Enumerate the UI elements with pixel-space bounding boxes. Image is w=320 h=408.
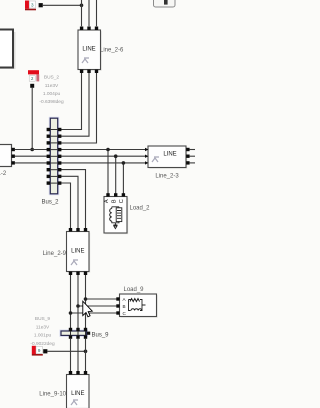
- svg-text:BUS_9: BUS_9: [35, 316, 51, 322]
- junction LF9/column C: [84, 350, 88, 354]
- line block Line_9-10: [67, 371, 90, 408]
- svg-text:LINE: LINE: [82, 47, 95, 53]
- wire row8 to Line_2-9 B: [57, 176, 78, 228]
- load flow bus LF9 (bottom flag): [32, 346, 43, 356]
- svg-text:1.001pu: 1.001pu: [34, 333, 52, 339]
- wire left row4: [15, 149, 51, 151]
- wire column B Line_2-9 to Bus_9: [77, 275, 79, 329]
- wire column B below Line_2-6: [57, 73, 89, 136]
- svg-text:LINE: LINE: [163, 152, 176, 158]
- branch to Load_9 C: [71, 312, 117, 314]
- wire column C Line_2-9 to Bus_9: [85, 275, 87, 329]
- wire LF2 down to row4: [31, 88, 33, 150]
- wire column C above Line_2-6: [96, 0, 98, 26]
- load block Load_9: [116, 294, 157, 318]
- svg-text:9: 9: [38, 348, 41, 353]
- load block Load_2: [104, 193, 128, 234]
- svg-text:A: A: [104, 199, 110, 203]
- mouse cursor: [83, 301, 93, 317]
- svg-text:1.004pu: 1.004pu: [43, 91, 61, 97]
- left block Line_1-2 partial: [0, 145, 15, 167]
- svg-text:Line_2-9: Line_2-9: [43, 251, 67, 257]
- branch to Load_9 B: [78, 305, 117, 307]
- wire row6 to Line_2-3: [57, 162, 145, 164]
- wire left row6: [15, 162, 51, 164]
- line block Line_2-9: [67, 228, 91, 275]
- wire row9 to Line_2-9 A: [57, 183, 71, 228]
- bus bar Bus_9: [60, 330, 89, 337]
- svg-text:-0.6398deg: -0.6398deg: [39, 99, 64, 105]
- bus bar Bus_2: [49, 117, 59, 195]
- wire column A Line_2-9 to Bus_9: [70, 275, 72, 329]
- Bus_2 pin rows: [47, 128, 62, 185]
- line block Line_2-3: [145, 146, 190, 169]
- load flow bus LF3 (top flag): [25, 1, 36, 11]
- pin dot of LF3: [39, 3, 43, 7]
- wire LF3 to column A: [43, 4, 82, 6]
- Bus_9 pins: [69, 328, 90, 339]
- svg-text:Bus_9: Bus_9: [92, 333, 110, 339]
- svg-text:Line_2-6: Line_2-6: [100, 48, 124, 54]
- svg-text:3: 3: [31, 3, 34, 8]
- svg-text:Bus_2: Bus_2: [41, 200, 59, 206]
- wire column C below Line_2-6: [57, 73, 97, 143]
- line block Line_2-6: [78, 27, 102, 74]
- branch to Load_9 A: [86, 298, 117, 300]
- svg-text:Line_2-3: Line_2-3: [155, 174, 179, 180]
- wire column B Bus_9 to Line_9-10: [77, 339, 79, 372]
- wires Line_2-3 outputs to edge: [190, 149, 195, 151]
- svg-text:B: B: [112, 199, 118, 203]
- wire row4 to Line_2-3: [57, 149, 145, 151]
- svg-text:BUS_2: BUS_2: [44, 75, 60, 81]
- wire row7 to Line_2-9 C: [57, 170, 86, 228]
- svg-text:11e3V: 11e3V: [36, 324, 50, 330]
- svg-text:Load_2: Load_2: [130, 206, 151, 212]
- svg-text:LINE: LINE: [71, 391, 84, 397]
- svg-text:11e3V: 11e3V: [45, 83, 59, 89]
- wire row5 to Line_2-3: [57, 155, 145, 157]
- junction LF2/row4: [30, 148, 34, 152]
- svg-text:Line_1-2: Line_1-2: [0, 171, 7, 177]
- branch wire to Load_2 C: [122, 163, 124, 194]
- branch wire to Load_2 A: [107, 150, 109, 195]
- wire column A above Line_2-6: [81, 0, 83, 26]
- wire column A Bus_9 to Line_9-10: [70, 339, 72, 372]
- wire column B above Line_2-6: [88, 0, 90, 26]
- pin dot of LF2: [30, 84, 34, 88]
- block partial upper-left (scope): [0, 30, 16, 70]
- annotation BUS_2 text: [39, 75, 64, 106]
- wire column A below Line_2-6: [57, 73, 82, 130]
- wire LF9 to column C: [47, 350, 85, 352]
- svg-text:Load_9: Load_9: [123, 287, 144, 293]
- load flow bus LF2 (rotated flag): [28, 70, 39, 81]
- annotation BUS_9 text: [30, 316, 55, 347]
- branch wire to Load_2 B: [115, 156, 117, 194]
- wire left row5: [15, 155, 51, 157]
- block partial top-right: [154, 0, 176, 7]
- svg-text:C: C: [119, 199, 125, 203]
- svg-text:Line_9-10: Line_9-10: [39, 392, 66, 398]
- junction at column A: [80, 4, 84, 8]
- svg-text:B: B: [123, 304, 126, 309]
- pin dot of LF9: [43, 349, 47, 353]
- svg-text:LINE: LINE: [71, 249, 84, 255]
- wire column C Bus_9 to Line_9-10: [85, 339, 87, 372]
